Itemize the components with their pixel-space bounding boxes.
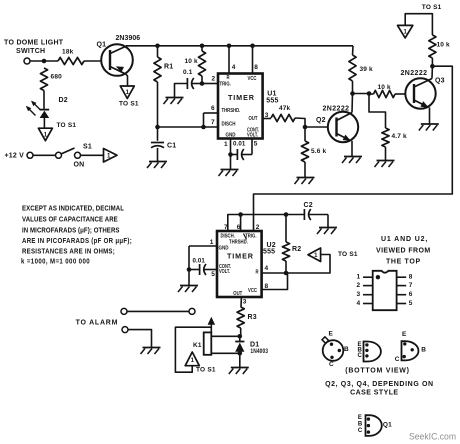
op-amp U1 555 timer box — [218, 74, 263, 139]
svg-text:2: 2 — [357, 282, 361, 289]
svg-text:8: 8 — [409, 274, 413, 281]
svg-text:OUT: OUT — [233, 291, 242, 296]
power tag 1 at K1 TO S1 — [185, 352, 199, 366]
wire Q3 emitter ground — [429, 107, 431, 123]
svg-text:THRSHD.: THRSHD. — [229, 239, 248, 244]
svg-text:Q1: Q1 — [97, 42, 107, 49]
svg-text:E: E — [402, 331, 407, 338]
resistor 5.6k — [304, 127, 306, 141]
ground below Q2 — [344, 156, 362, 158]
svg-text:C: C — [358, 428, 363, 434]
node R2 pin4 pin8 — [284, 271, 289, 276]
svg-text:7: 7 — [211, 119, 215, 126]
pin 1 lead — [363, 276, 373, 278]
svg-text:R: R — [227, 75, 231, 80]
wire relay arm to power tag — [175, 327, 211, 372]
svg-text:1: 1 — [224, 141, 228, 148]
terminal +12V — [27, 152, 33, 158]
svg-text:TO S1: TO S1 — [338, 251, 358, 258]
wire alarm contact — [127, 310, 189, 312]
svg-text:6: 6 — [237, 224, 241, 231]
svg-text:C: C — [329, 361, 334, 368]
svg-text:0.01: 0.01 — [233, 141, 246, 148]
power tag 1 top right — [398, 25, 413, 38]
svg-text:Q1: Q1 — [383, 421, 392, 428]
wire Q3 collector to U2 trigger — [254, 66, 453, 231]
node R2 C2 tie — [284, 212, 289, 217]
svg-text:10 k: 10 k — [378, 84, 391, 91]
node 10k 4.7k branch — [367, 91, 372, 96]
svg-text:TO S1: TO S1 — [422, 4, 442, 11]
wire 5.6k to ground — [304, 162, 306, 177]
resistor R1 — [157, 46, 159, 57]
ground below 4.7k — [377, 160, 395, 162]
note text block — [21, 205, 132, 266]
svg-text:TO ALARM: TO ALARM — [76, 320, 119, 327]
wire switch to tag — [81, 154, 104, 156]
svg-text:VCC: VCC — [248, 288, 258, 293]
svg-text:EXCEPT AS INDICATED, DECIMAL: EXCEPT AS INDICATED, DECIMAL — [22, 205, 124, 212]
svg-text:B: B — [421, 347, 426, 354]
svg-text:E: E — [329, 331, 334, 338]
svg-text:4: 4 — [357, 300, 361, 307]
svg-text:TO DOME LIGHT: TO DOME LIGHT — [4, 40, 64, 47]
svg-text:Q2: Q2 — [316, 117, 326, 124]
node pin6 tie — [238, 212, 243, 217]
node rail pin4 — [227, 44, 232, 49]
svg-text:680: 680 — [51, 74, 63, 81]
wire Q2 collector — [351, 94, 354, 113]
svg-text:1: 1 — [191, 358, 195, 364]
wire Q2 emitter to ground — [351, 141, 353, 156]
capacitor C1 — [157, 127, 159, 141]
wire U2 pin4 reset — [262, 272, 286, 274]
wire pin3 out — [263, 118, 271, 120]
svg-text:R: R — [256, 269, 260, 274]
label U1 AND U2 VIEWED FROM THE TOP — [376, 236, 431, 266]
svg-text:C: C — [395, 356, 400, 363]
wire 0.1 to ground — [175, 84, 188, 98]
ground below C1 — [149, 161, 167, 163]
wire branch to 4.7k — [369, 94, 386, 129]
svg-text:(BOTTOM VIEW): (BOTTOM VIEW) — [345, 367, 409, 374]
svg-text:3: 3 — [243, 299, 247, 306]
wire pin6 up — [240, 215, 242, 232]
svg-text:DISCH.: DISCH. — [221, 233, 235, 238]
svg-text:6: 6 — [211, 105, 215, 112]
node rail 10k — [200, 44, 205, 49]
pin 6 lead — [397, 294, 407, 296]
svg-text:S1: S1 — [83, 144, 92, 151]
svg-text:7: 7 — [409, 282, 413, 289]
power tag 1 source S1 — [104, 149, 118, 163]
svg-text:1: 1 — [357, 274, 361, 281]
svg-text:39 k: 39 k — [360, 66, 373, 73]
svg-text:555: 555 — [263, 249, 275, 256]
wire 10k to Q3 base — [395, 93, 406, 95]
svg-text:TRIG.: TRIG. — [245, 233, 256, 238]
wire U2 pin1 gnd — [189, 245, 217, 247]
wire pin6 threshold — [204, 112, 219, 114]
svg-text:VOLT.: VOLT. — [219, 268, 230, 274]
svg-text:0.1: 0.1 — [183, 69, 193, 76]
svg-text:18k: 18k — [62, 49, 74, 56]
wire D1 to relay coil top — [211, 335, 240, 337]
case TO-18 bottom view — [322, 331, 349, 368]
op-amp U2 555 timer box — [217, 231, 262, 297]
pin 8 lead — [397, 276, 407, 278]
terminal alarm C — [122, 327, 128, 333]
node Q2 collector 39k — [350, 91, 355, 96]
svg-text:R2: R2 — [292, 246, 301, 253]
svg-text:ON: ON — [74, 162, 85, 169]
svg-text:VALUES OF CAPACITANCE ARE: VALUES OF CAPACITANCE ARE — [22, 216, 118, 223]
node pin1 gnd — [228, 152, 233, 157]
wire collector node right — [353, 93, 370, 95]
wire pin1 down — [230, 139, 232, 155]
node R1 C1 pin7 — [155, 125, 160, 130]
svg-text:VIEWED FROM: VIEWED FROM — [376, 248, 431, 255]
wire D1 to relay coil bottom — [211, 352, 240, 354]
wire pin7 pin6 tie — [228, 215, 286, 232]
svg-text:D1: D1 — [250, 342, 259, 349]
svg-text:Q3: Q3 — [435, 78, 445, 85]
wire pin6 stub down — [203, 113, 205, 127]
wire C2 to ground — [327, 215, 329, 228]
node U2 gnd — [187, 267, 192, 272]
svg-text:1: 1 — [210, 239, 214, 246]
svg-text:1N4003: 1N4003 — [250, 349, 268, 356]
svg-text:6: 6 — [409, 291, 413, 298]
svg-text:C1: C1 — [167, 143, 176, 150]
svg-text:10 k: 10 k — [437, 42, 450, 49]
svg-text:10 k: 10 k — [185, 58, 198, 65]
svg-text:2N3906: 2N3906 — [116, 35, 141, 42]
node U1 trig — [200, 81, 205, 86]
ground below U2 pin1 — [188, 270, 190, 286]
terminal dome-light input — [24, 58, 30, 64]
LED D2 — [40, 110, 50, 129]
ground below Q3 — [421, 123, 439, 125]
svg-text:SeekIC.com: SeekIC.com — [409, 431, 456, 442]
svg-text:VCC: VCC — [248, 76, 258, 81]
svg-text:C2: C2 — [304, 202, 313, 209]
wire 4.7k to ground — [385, 147, 387, 160]
IC package top view — [373, 271, 397, 310]
wire alarm C to ground — [128, 330, 152, 347]
relay K1 coil — [204, 332, 212, 354]
svg-text:TIMER: TIMER — [228, 93, 255, 102]
svg-text:555: 555 — [266, 97, 278, 104]
svg-text:THRSHD.: THRSHD. — [222, 108, 241, 113]
resistor 10k to Q3 base — [369, 93, 374, 95]
ground below 0.1 — [166, 97, 184, 99]
wire +12V to switch — [33, 154, 56, 156]
svg-text:Q2, Q3, Q4, DEPENDING ON: Q2, Q3, Q4, DEPENDING ON — [325, 381, 434, 388]
wire U2 pin3 out — [240, 297, 242, 307]
node D1 top — [238, 334, 243, 339]
wire pin7 disch — [158, 126, 219, 128]
svg-text:D2: D2 — [59, 97, 68, 104]
wire 10k to trig node — [201, 76, 203, 83]
svg-text:3: 3 — [357, 291, 361, 298]
svg-text:3: 3 — [265, 112, 269, 119]
svg-text:SWITCH: SWITCH — [16, 48, 45, 55]
svg-text:8: 8 — [254, 64, 258, 71]
ground below U1 pin1 — [230, 155, 232, 170]
ground below D1 — [239, 353, 241, 367]
wire tag to 10k — [405, 14, 432, 35]
svg-text:CASE STYLE: CASE STYLE — [350, 390, 398, 397]
svg-text:RESISTANCES ARE IN OHMS;: RESISTANCES ARE IN OHMS; — [22, 248, 115, 255]
diode D1 1N4003 — [235, 336, 244, 353]
svg-text:ARE IN PICOFARADS (pF OR μμF);: ARE IN PICOFARADS (pF OR μμF); — [22, 238, 132, 245]
svg-text:2N2222: 2N2222 — [323, 106, 350, 113]
resistor 4.7k — [382, 128, 389, 147]
svg-text:4: 4 — [232, 64, 236, 71]
svg-text:VOLT.: VOLT. — [247, 132, 258, 138]
node Q3 collector — [430, 64, 435, 69]
svg-text:IN MICROFARADS (μF); OTHERS: IN MICROFARADS (μF); OTHERS — [22, 227, 120, 234]
svg-text:5: 5 — [211, 271, 215, 278]
pin 7 lead — [397, 285, 407, 287]
wire node to Q2 base — [305, 126, 328, 128]
wire input to 18k — [30, 60, 58, 62]
svg-text:TO S1: TO S1 — [57, 122, 77, 129]
node 680 junction — [42, 59, 47, 64]
transistor Q1 2N3906 — [101, 44, 133, 86]
wire pin1 down left — [188, 246, 190, 270]
pin 5 lead — [397, 303, 407, 305]
resistor R2 — [285, 215, 287, 243]
svg-text:U1 AND U2,: U1 AND U2, — [381, 236, 428, 243]
resistor 18k — [58, 57, 84, 64]
transistor Q3 2N2222 — [405, 78, 435, 108]
svg-text:DISCH: DISCH — [222, 121, 237, 127]
ground below alarm — [143, 347, 161, 349]
power tag 1 below D2 TO S1 — [38, 128, 52, 141]
wire +V rail — [126, 45, 353, 47]
power tag 1 at U2 TO S1 — [308, 248, 321, 262]
svg-text:4.7 k: 4.7 k — [392, 133, 407, 140]
svg-text:OUT: OUT — [249, 115, 258, 120]
resistor 39k — [352, 46, 355, 55]
resistor 47k — [271, 114, 295, 121]
wire 10k to Q3 collector node — [431, 58, 433, 66]
transistor Q2 2N2222 — [328, 112, 358, 142]
relay contact arm arrow — [210, 324, 212, 332]
wire trig node to pin2 — [202, 83, 218, 85]
node Q2 base — [303, 125, 308, 130]
case Q1 bottom view — [358, 415, 392, 436]
svg-text:k =1000, M=1 000 000: k =1000, M=1 000 000 — [21, 258, 90, 265]
case TO-92 variant — [395, 331, 426, 363]
wire pin5 down — [251, 139, 253, 155]
wire Q3 collector up — [431, 66, 433, 78]
svg-text:C: C — [358, 353, 363, 359]
svg-text:B: B — [358, 422, 363, 428]
pin 2 lead — [363, 285, 373, 287]
node pin7 stub — [201, 125, 206, 130]
svg-text:E: E — [358, 415, 362, 421]
resistor 10k top right — [429, 35, 436, 58]
wire U2 pin8 vcc — [262, 273, 288, 290]
svg-text:5: 5 — [409, 300, 413, 307]
node rail R1 — [155, 44, 160, 49]
wire R1 to disch node — [157, 82, 159, 127]
svg-text:2: 2 — [212, 76, 216, 83]
ground right of C2 — [319, 227, 337, 229]
svg-text:47k: 47k — [279, 105, 291, 112]
svg-text:5.6 k: 5.6 k — [311, 148, 326, 155]
svg-text:2: 2 — [256, 224, 260, 231]
node rail pin8 — [250, 44, 255, 49]
svg-text:GND: GND — [226, 132, 237, 138]
svg-text:B: B — [344, 346, 349, 353]
power tag 1 at Q1 emitter TO S1 — [120, 86, 134, 99]
svg-text:TO S1: TO S1 — [119, 101, 139, 108]
resistor 680 — [40, 68, 47, 91]
svg-text:5: 5 — [254, 141, 258, 148]
terminal alarm B — [189, 308, 195, 314]
svg-text:TRIG.: TRIG. — [220, 81, 231, 86]
LED D2 emission arrows — [26, 101, 41, 116]
svg-text:7: 7 — [224, 224, 228, 231]
terminal alarm A — [121, 308, 127, 314]
wire pin4 to rail — [228, 46, 230, 74]
svg-text:1: 1 — [314, 253, 318, 259]
svg-text:2N2222: 2N2222 — [401, 70, 428, 77]
svg-text:THE TOP: THE TOP — [386, 259, 421, 266]
pin 4 lead — [363, 303, 373, 305]
wire R3 to D1 — [240, 328, 242, 336]
svg-text:TO S1: TO S1 — [196, 367, 216, 374]
svg-text:0.01: 0.01 — [193, 258, 206, 265]
case TO-92 with three dots — [358, 342, 381, 362]
resistor R3 — [237, 307, 244, 328]
ground below 5.6k — [297, 177, 315, 179]
svg-text:R1: R1 — [164, 64, 173, 71]
svg-text:8: 8 — [265, 283, 269, 290]
wire 18k to Q1 base — [84, 60, 102, 62]
capacitor C2 — [286, 214, 304, 216]
pin 3 lead — [363, 294, 373, 296]
wire 47k to Q2 base node — [295, 118, 305, 127]
wire pin8 to rail — [252, 46, 254, 74]
svg-text:4: 4 — [265, 265, 269, 272]
resistor 10k U1 trigger — [201, 46, 203, 51]
wire 680 to D2 — [43, 91, 45, 109]
svg-text:TIMER: TIMER — [227, 251, 254, 260]
svg-text:K1: K1 — [193, 342, 202, 349]
node D1 bottom — [238, 351, 243, 356]
svg-text:R3: R3 — [248, 314, 257, 321]
svg-text:+12 V: +12 V — [5, 153, 25, 160]
wire tag to pin4 node — [286, 255, 330, 274]
switch S1 — [56, 148, 81, 158]
